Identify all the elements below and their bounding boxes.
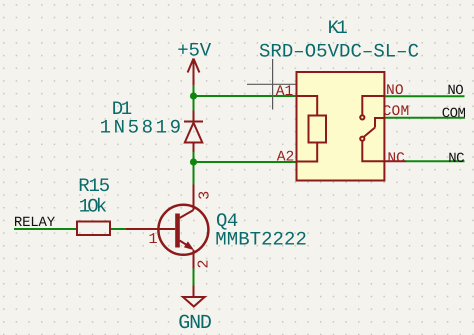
- svg-text:NC: NC: [387, 151, 405, 167]
- relay K1 body: [297, 72, 385, 181]
- svg-text:K1: K1: [328, 17, 348, 39]
- svg-text:GND: GND: [178, 312, 211, 335]
- svg-text:COM: COM: [383, 104, 410, 120]
- wire emitter to ground: [193, 268, 195, 286]
- relay K1 coil: [297, 96, 327, 162]
- svg-text:R15: R15: [78, 175, 110, 197]
- relay K1 switch contacts: [360, 96, 406, 161]
- ground: [183, 286, 205, 307]
- svg-text:1: 1: [149, 231, 158, 248]
- wire diode to collector: [193, 151, 195, 185]
- svg-text:MMBT2222: MMBT2222: [215, 229, 307, 251]
- wire NC: [406, 160, 465, 162]
- svg-text:NO: NO: [386, 83, 404, 99]
- transistor Q4 emitter arrow: [184, 241, 194, 250]
- svg-text:2: 2: [196, 259, 213, 268]
- svg-text:NC: NC: [448, 151, 464, 167]
- wire RELAY input: [14, 228, 77, 230]
- svg-text:NO: NO: [447, 83, 463, 99]
- svg-text:1Ok: 1Ok: [79, 196, 107, 218]
- svg-text:A2: A2: [277, 149, 295, 165]
- resistor R15: [77, 222, 110, 236]
- wire resistor to base: [110, 228, 126, 230]
- wire NO: [385, 95, 465, 97]
- junction node at +5V / A1: [190, 92, 197, 99]
- power +5V: [188, 59, 200, 86]
- wire A2 horizontal: [194, 161, 297, 163]
- svg-text:A1: A1: [276, 84, 294, 100]
- wire COM: [385, 117, 466, 119]
- svg-text:3: 3: [197, 191, 214, 200]
- svg-text:+5V: +5V: [177, 39, 212, 61]
- svg-text:SRD–O5VDC–SL–C: SRD–O5VDC–SL–C: [259, 40, 419, 62]
- svg-text:COM: COM: [442, 106, 466, 122]
- diode D1: [184, 111, 203, 153]
- svg-text:RELAY: RELAY: [14, 215, 56, 231]
- wire A1 horizontal: [194, 95, 386, 97]
- svg-text:1N5819: 1N5819: [100, 116, 184, 138]
- transistor Q4: [126, 185, 208, 269]
- cursor crosshair: [247, 59, 299, 110]
- junction node at diode anode / A2: [190, 158, 197, 165]
- wire +5V rail down to junction and diode: [193, 84, 195, 111]
